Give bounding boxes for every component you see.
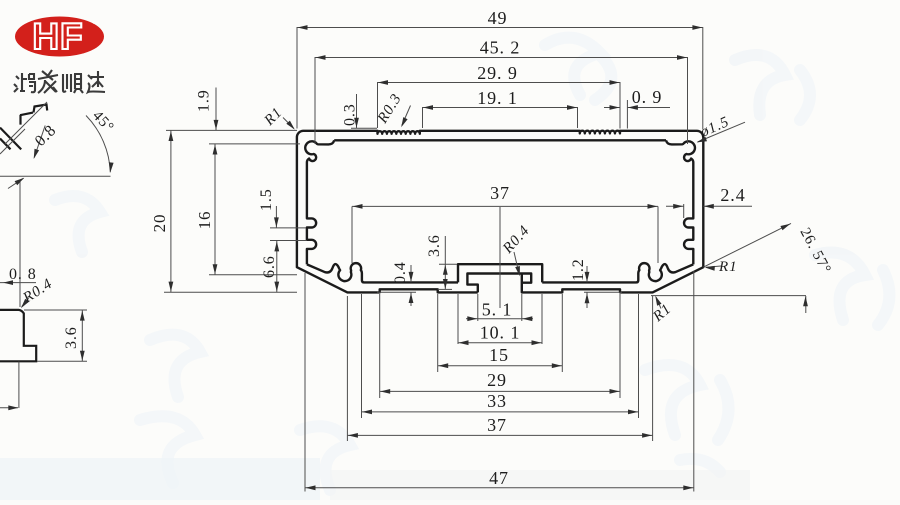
logo chinese text 鸿发顺达 (drawn strokes) [14, 70, 105, 93]
dim 16 left [209, 143, 300, 145]
dim 3.6 bottom-left [24, 309, 87, 311]
svg-text:15: 15 [489, 345, 509, 365]
dim 0.4 bottom recess [377, 291, 416, 293]
dim 20 left [166, 129, 297, 131]
profile outer outline with serrations and chamfers [297, 131, 703, 293]
svg-text:R1: R1 [718, 259, 737, 275]
interior bottom-right chamfer port and floor [542, 263, 693, 282]
dim 5.1 slot [477, 294, 479, 321]
svg-text:HF: HF [32, 16, 83, 57]
dim 26.57 chamfer angle [703, 223, 791, 267]
svg-text:45. 2: 45. 2 [480, 38, 521, 58]
center rail block [458, 264, 542, 282]
svg-text:1.2: 1.2 [570, 258, 587, 281]
dim 1.9 top wall [215, 88, 217, 131]
svg-text:™: ™ [92, 21, 99, 28]
dim 19.1 [423, 107, 578, 109]
dim 37 bottom flat [346, 296, 348, 441]
dim 29 recess outer [379, 294, 381, 398]
svg-text:33: 33 [487, 391, 507, 411]
dim 0.3 serration depth [351, 127, 377, 129]
svg-text:0.3: 0.3 [342, 103, 359, 126]
dim 1.2 bottom right recess [584, 291, 622, 293]
label R0.4 rail pocket [514, 252, 519, 275]
svg-text:6.6: 6.6 [261, 255, 278, 278]
connector ext line [19, 182, 21, 307]
svg-text:0. 8: 0. 8 [9, 266, 37, 283]
right screw port and inner right wall with teeth [666, 140, 695, 264]
svg-text:3.6: 3.6 [426, 234, 443, 257]
rail slot neck and pocket walls [467, 274, 531, 293]
svg-text:0. 9: 0. 9 [632, 87, 663, 107]
label dia 1.5 screw port [698, 122, 746, 142]
svg-text:37: 37 [487, 415, 507, 435]
svg-text:29: 29 [487, 370, 507, 390]
label R0.3 serration radius [402, 106, 411, 126]
svg-text:20: 20 [150, 214, 169, 233]
label R1 right chamfer bottom [656, 297, 661, 309]
left screw port and inner left wall with teeth [305, 140, 334, 264]
dim 15 recess inner [437, 294, 439, 372]
dim 10.1 rail width [457, 294, 459, 344]
45 degree arc dim [86, 116, 110, 173]
dim 49 top [297, 27, 703, 29]
bottom-left ext arrow [18, 362, 20, 409]
bottom-left detail step section [0, 310, 36, 361]
label R1 top-left corner [283, 118, 294, 129]
dim 37 interior width [352, 205, 658, 207]
svg-text:16: 16 [195, 211, 214, 230]
dim 1.5 teeth gap [270, 227, 306, 229]
label R0.4 bottom-left [22, 298, 29, 307]
left detail 45-degree corner piece [0, 105, 47, 150]
svg-text:1.5: 1.5 [258, 188, 275, 211]
svg-text:29. 9: 29. 9 [477, 63, 518, 83]
slot centerline [499, 207, 501, 308]
svg-text:37: 37 [490, 183, 510, 203]
dim 45.2 [315, 57, 688, 59]
dim 33 port ledges [361, 294, 363, 418]
inner top line [334, 139, 666, 141]
svg-text:1.9: 1.9 [196, 89, 213, 112]
svg-text:5. 1: 5. 1 [482, 300, 513, 320]
svg-text:49: 49 [488, 8, 508, 28]
interior bottom-left chamfer port and floor [307, 263, 458, 282]
dim 0.9 [626, 100, 628, 129]
dim 6.6 lower-left [276, 241, 278, 292]
dim 47 overall bottom [304, 273, 306, 492]
svg-text:2.4: 2.4 [720, 185, 745, 205]
logo red ellipse HF [15, 17, 104, 57]
dim 2.4 right wall [683, 204, 685, 218]
dim 0.8 bottom-left [0, 282, 36, 284]
svg-text:3.6: 3.6 [63, 326, 80, 349]
dim 3.6 rail height [439, 263, 457, 265]
svg-text:0.4: 0.4 [392, 261, 409, 284]
label R1 right chamfer top [706, 266, 721, 267]
svg-text:10. 1: 10. 1 [480, 323, 521, 343]
dim 29.9 [378, 82, 621, 84]
svg-text:47: 47 [489, 468, 509, 488]
svg-text:19. 1: 19. 1 [477, 88, 518, 108]
